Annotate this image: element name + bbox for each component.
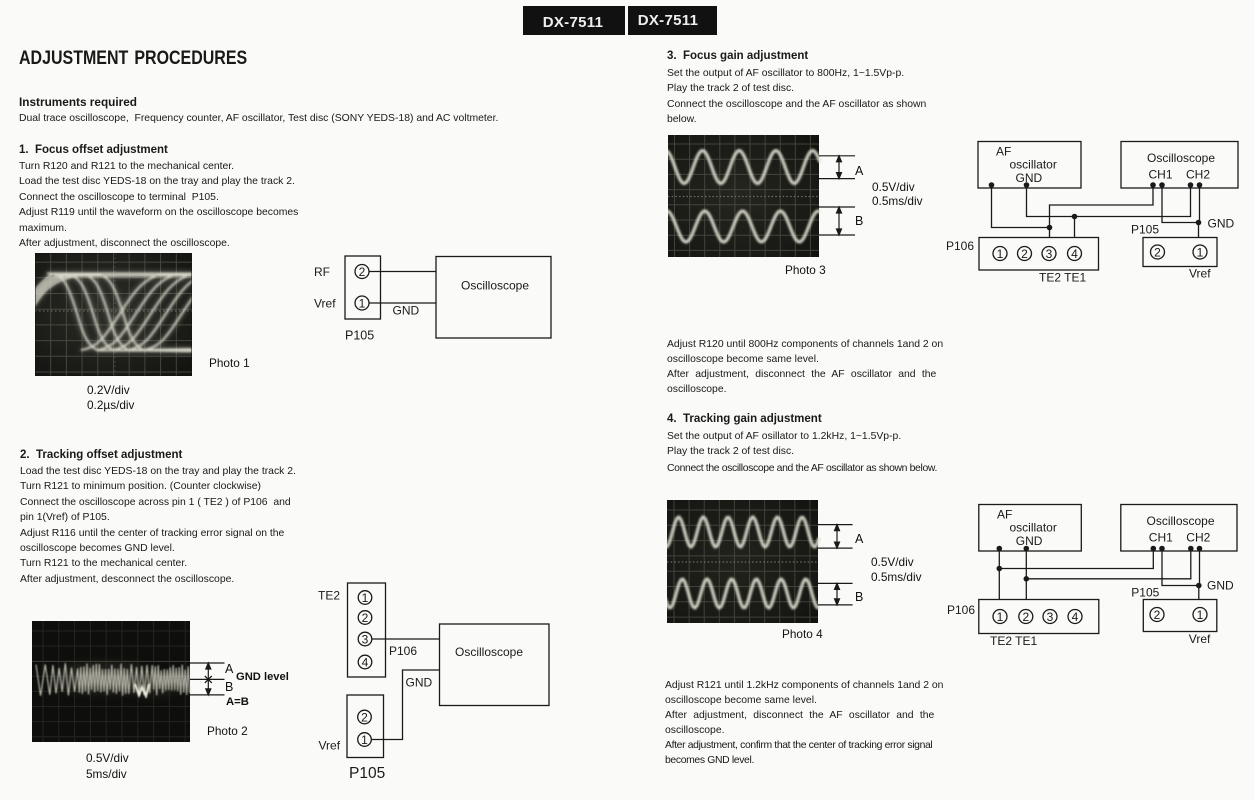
- pin 2: [1150, 608, 1164, 622]
- pin 1: [355, 296, 369, 310]
- connector P105 box: [1143, 238, 1217, 267]
- pin 4: [358, 655, 372, 669]
- label Oscilloscope: [455, 645, 523, 659]
- AF oscillator box: [978, 142, 1081, 189]
- pin 1: [358, 591, 372, 605]
- svg-text:P105: P105: [349, 765, 385, 782]
- label Vref: [314, 297, 336, 311]
- label P106: [947, 603, 975, 617]
- pin 4: [1068, 610, 1082, 624]
- junction: [1047, 225, 1053, 231]
- svg-text:TE2: TE2: [318, 589, 340, 603]
- junction: [997, 566, 1003, 572]
- label P106: [946, 239, 974, 253]
- photo 2 oscillogram: [32, 621, 232, 742]
- wire CH2 gnd to GND node: [1199, 185, 1201, 223]
- wire CH1 to junction: [1050, 185, 1154, 228]
- svg-text:3: 3: [1047, 610, 1054, 624]
- section 4: [667, 412, 822, 427]
- label P105: [1131, 223, 1159, 237]
- svg-text:4: 4: [1072, 610, 1079, 624]
- pin 1: [1193, 245, 1207, 259]
- connector TE2 (P106) box: [348, 583, 386, 677]
- svg-text:2: 2: [362, 611, 369, 625]
- label TE2 TE1: [990, 634, 1037, 648]
- svg-text:4: 4: [362, 655, 369, 669]
- section 1: [19, 143, 168, 158]
- label TE2: [318, 589, 340, 603]
- label P105: [345, 329, 374, 343]
- diagram 3: AF oscillator and oscilloscope to P106/P105: [940, 135, 1254, 287]
- pin 2: [355, 265, 369, 279]
- connector P105 box: [345, 256, 381, 319]
- pin 1: [1193, 608, 1207, 622]
- svg-text:GND: GND: [406, 676, 433, 690]
- terminal dots: [989, 182, 1203, 188]
- svg-text:P106: P106: [946, 239, 974, 253]
- node GND: [1196, 220, 1202, 226]
- svg-text:Oscilloscope: Oscilloscope: [455, 645, 523, 659]
- wire CH2 gnd to GND node: [1199, 549, 1201, 586]
- svg-text:2: 2: [1021, 247, 1028, 261]
- svg-text:2: 2: [359, 265, 366, 279]
- terminal dots: [997, 546, 1203, 552]
- label GND: [393, 304, 420, 318]
- svg-text:Vref: Vref: [319, 739, 341, 753]
- pin 1: [993, 610, 1007, 624]
- svg-text:CH1: CH1: [1149, 168, 1173, 182]
- wire RF to oscilloscope: [369, 271, 436, 273]
- svg-text:AF: AF: [997, 508, 1012, 522]
- label GND: [406, 676, 433, 690]
- connector Vref (P105) box: [347, 695, 384, 758]
- svg-text:1: 1: [1197, 608, 1204, 622]
- label P105: [349, 765, 385, 782]
- svg-text:TE2 TE1: TE2 TE1: [1039, 271, 1086, 285]
- svg-text:1: 1: [359, 296, 366, 310]
- svg-text:GND: GND: [393, 304, 420, 318]
- svg-text:P106: P106: [389, 644, 417, 658]
- svg-text:GND: GND: [1207, 579, 1234, 593]
- header model tabs: [523, 6, 717, 35]
- svg-text:CH2: CH2: [1186, 531, 1210, 545]
- svg-text:Vref: Vref: [1189, 267, 1211, 281]
- svg-text:Vref: Vref: [1189, 632, 1211, 646]
- svg-text:P106: P106: [947, 603, 975, 617]
- label P106: [389, 644, 417, 658]
- label P105: [1131, 586, 1159, 600]
- svg-text:Oscilloscope: Oscilloscope: [1147, 514, 1215, 528]
- photo 4 annotation lines: [818, 525, 853, 605]
- diagram 1: P105 to oscilloscope: [300, 245, 570, 350]
- connector P106 box: [979, 238, 1099, 271]
- svg-text:1: 1: [362, 591, 369, 605]
- pin 3: [1042, 247, 1056, 261]
- pin 2: [1151, 245, 1165, 259]
- wire CH1 gnd to GND node: [1162, 549, 1199, 586]
- svg-text:oscillator: oscillator: [1010, 158, 1057, 172]
- svg-text:P105: P105: [345, 329, 374, 343]
- label Oscilloscope: [461, 279, 529, 293]
- photo 3 oscillogram: [668, 135, 858, 265]
- label Oscilloscope CH1 CH2: [1147, 151, 1215, 182]
- svg-text:1: 1: [361, 733, 368, 747]
- photo 4 oscillogram: [667, 500, 857, 631]
- wire AF out to P106 pin3: [992, 185, 1050, 238]
- photo 3 annotation lines: [819, 156, 855, 235]
- label AF oscillator GND: [997, 508, 1057, 549]
- label TE2 TE1: [1039, 271, 1086, 285]
- junction: [1024, 576, 1030, 582]
- label RF: [314, 265, 330, 279]
- section 2: [20, 448, 182, 463]
- pin 2: [358, 710, 372, 724]
- wire pin3 to oscilloscope: [372, 638, 440, 640]
- section 3: [667, 49, 808, 64]
- pin 2: [358, 611, 372, 625]
- AF oscillator box: [979, 505, 1082, 552]
- junction: [1072, 214, 1078, 220]
- wire junction to CH2: [1026, 549, 1191, 579]
- label Oscilloscope CH1 CH2: [1147, 514, 1215, 545]
- oscilloscope box: [1121, 505, 1237, 552]
- svg-text:2: 2: [361, 710, 368, 724]
- svg-text:1: 1: [1197, 245, 1204, 259]
- svg-text:1: 1: [997, 610, 1004, 624]
- svg-text:Vref: Vref: [314, 297, 336, 311]
- pin 4: [1068, 247, 1082, 261]
- svg-text:CH2: CH2: [1186, 168, 1210, 182]
- svg-text:TE2 TE1: TE2 TE1: [990, 634, 1037, 648]
- wire GND node to P105 pin1: [1198, 586, 1200, 600]
- svg-text:3: 3: [1046, 247, 1053, 261]
- pin 2: [1018, 247, 1032, 261]
- oscilloscope box: [1121, 142, 1238, 189]
- diagram 4: AF oscillator and oscilloscope to P106/P105: [940, 498, 1254, 650]
- oscilloscope box: [440, 624, 550, 706]
- svg-text:2: 2: [1154, 245, 1161, 259]
- svg-text:P105: P105: [1131, 586, 1159, 600]
- wire AF GND to CH2: [1027, 185, 1191, 217]
- svg-text:oscillator: oscillator: [1010, 521, 1057, 535]
- svg-text:GND: GND: [1016, 171, 1043, 185]
- svg-text:2: 2: [1022, 610, 1029, 624]
- svg-text:GND: GND: [1016, 534, 1043, 548]
- oscilloscope box: [436, 257, 551, 339]
- pin 1: [358, 733, 372, 747]
- pin 1: [993, 247, 1007, 261]
- connector P106 box: [979, 600, 1099, 634]
- svg-text:GND: GND: [1208, 217, 1235, 231]
- wire GND node to P105 pin1: [1198, 223, 1200, 238]
- label Vref: [1189, 267, 1211, 281]
- pin 3: [358, 632, 372, 646]
- photo 2 annotation lines: [190, 663, 225, 695]
- label GND: [1208, 217, 1235, 231]
- diagram 2: P106/P105 to oscilloscope: [300, 575, 570, 795]
- wire junction to P106 pin4: [1074, 217, 1076, 238]
- wire AF GND to P106 pin2: [1025, 549, 1027, 600]
- svg-text:Oscilloscope: Oscilloscope: [461, 279, 529, 293]
- photo 1 oscillogram: [35, 253, 192, 376]
- connector P105 box: [1143, 600, 1217, 632]
- svg-text:2: 2: [1154, 608, 1161, 622]
- svg-text:3: 3: [362, 632, 369, 646]
- pin 3: [1043, 610, 1057, 624]
- svg-text:CH1: CH1: [1149, 531, 1173, 545]
- svg-text:Oscilloscope: Oscilloscope: [1147, 151, 1215, 165]
- instruments required: [19, 95, 137, 110]
- wire CH1 gnd to GND node: [1162, 185, 1199, 223]
- node GND: [1196, 583, 1202, 589]
- pin 2: [1019, 610, 1033, 624]
- label AF oscillator GND: [996, 145, 1057, 186]
- main heading: [19, 47, 247, 70]
- label GND: [1207, 579, 1234, 593]
- label Vref: [319, 739, 341, 753]
- wire GND from Vref pin1 to oscilloscope: [371, 670, 440, 740]
- wire junction to CH1: [999, 549, 1153, 569]
- wire Vref GND to oscilloscope: [369, 302, 436, 304]
- svg-text:1: 1: [997, 247, 1004, 261]
- label Vref: [1189, 632, 1211, 646]
- svg-text:AF: AF: [996, 145, 1011, 159]
- wire AF out to P106 pin1: [998, 549, 1000, 600]
- svg-text:4: 4: [1071, 247, 1078, 261]
- svg-text:P105: P105: [1131, 223, 1159, 237]
- svg-text:RF: RF: [314, 265, 330, 279]
